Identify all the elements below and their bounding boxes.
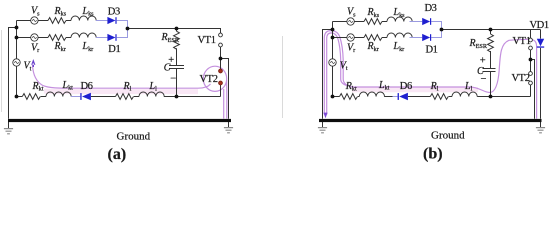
svg-text:Lkr: Lkr: [393, 41, 405, 53]
svg-text:Rks: Rks: [54, 6, 67, 18]
svg-text:VT2: VT2: [200, 74, 218, 85]
svg-text:Lks: Lks: [82, 6, 95, 18]
svg-text:Rkt: Rkt: [345, 81, 357, 93]
svg-text:Vt: Vt: [340, 60, 348, 72]
svg-text:VT1: VT1: [513, 36, 531, 47]
svg-text:Vs: Vs: [347, 7, 356, 19]
svg-text:Rl: Rl: [123, 81, 132, 93]
svg-text:Ground: Ground: [117, 131, 151, 143]
svg-text:Rkt: Rkt: [32, 81, 44, 93]
svg-text:D3: D3: [425, 3, 437, 14]
svg-text:Lks: Lks: [393, 7, 406, 19]
svg-text:Lkt: Lkt: [62, 80, 74, 92]
svg-text:Ll: Ll: [149, 81, 158, 93]
svg-text:+: +: [168, 55, 174, 66]
svg-text:D1: D1: [426, 44, 438, 55]
svg-text:Ground: Ground: [431, 130, 465, 142]
svg-text:RESR: RESR: [469, 38, 488, 50]
svg-text:D3: D3: [108, 7, 120, 18]
svg-text:VD1: VD1: [530, 20, 549, 31]
svg-text:Rkr: Rkr: [54, 41, 66, 53]
svg-text:−: −: [170, 73, 176, 84]
svg-text:D1: D1: [108, 44, 120, 55]
svg-text:(b): (b): [423, 146, 443, 163]
svg-text:Rl: Rl: [430, 81, 439, 93]
svg-text:Vr: Vr: [31, 42, 39, 54]
svg-text:Ll: Ll: [464, 81, 473, 93]
svg-text:−: −: [481, 74, 487, 85]
svg-text:D6: D6: [400, 81, 412, 92]
svg-text:VT2: VT2: [512, 73, 530, 84]
svg-text:Vt: Vt: [24, 61, 32, 73]
svg-text:Rks: Rks: [367, 7, 380, 19]
svg-text:Vs: Vs: [31, 6, 40, 18]
svg-text:+: +: [480, 56, 486, 67]
svg-text:Rkr: Rkr: [367, 41, 379, 53]
svg-text:VT1: VT1: [198, 35, 216, 46]
svg-text:Lkr: Lkr: [82, 41, 94, 53]
svg-text:(a): (a): [108, 146, 127, 163]
svg-text:D6: D6: [81, 81, 93, 92]
svg-text:Vr: Vr: [347, 42, 355, 54]
svg-text:Lkt: Lkt: [378, 80, 390, 92]
